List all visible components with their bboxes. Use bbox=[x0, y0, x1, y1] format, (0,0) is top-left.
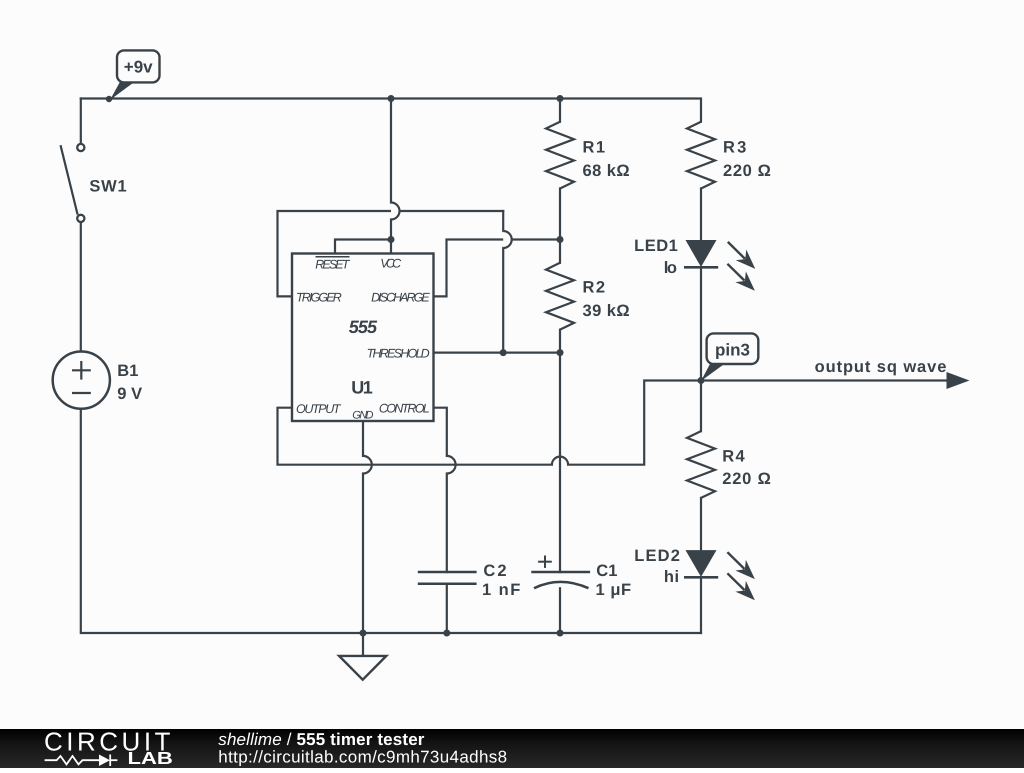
svg-text:220 Ω: 220 Ω bbox=[722, 470, 771, 488]
svg-text:39 kΩ: 39 kΩ bbox=[583, 302, 630, 320]
svg-text:555: 555 bbox=[349, 317, 378, 337]
svg-text:68 kΩ: 68 kΩ bbox=[583, 162, 630, 180]
svg-text:LED2: LED2 bbox=[634, 547, 680, 565]
svg-text:http://circuitlab.com/c9mh73u4: http://circuitlab.com/c9mh73u4adhs8 bbox=[218, 748, 507, 767]
svg-text:R4: R4 bbox=[722, 448, 745, 466]
svg-text:OUTPUT: OUTPUT bbox=[296, 402, 342, 416]
svg-text:output sq wave: output sq wave bbox=[815, 358, 947, 376]
svg-text:U1: U1 bbox=[351, 377, 373, 397]
svg-text:CONTROL: CONTROL bbox=[379, 402, 430, 416]
svg-text:+9v: +9v bbox=[124, 58, 153, 77]
svg-text:1 μF: 1 μF bbox=[596, 581, 632, 599]
svg-text:B1: B1 bbox=[117, 362, 138, 380]
svg-text:C2: C2 bbox=[483, 562, 506, 580]
svg-text:lo: lo bbox=[664, 259, 677, 277]
svg-text:pin3: pin3 bbox=[715, 341, 750, 360]
svg-text:R2: R2 bbox=[583, 279, 606, 297]
svg-text:shellime / 555 timer tester: shellime / 555 timer tester bbox=[218, 730, 425, 749]
svg-text:LAB: LAB bbox=[128, 748, 173, 768]
svg-text:LED1: LED1 bbox=[634, 237, 678, 255]
svg-text:R1: R1 bbox=[583, 139, 606, 157]
svg-text:9 V: 9 V bbox=[117, 385, 142, 403]
svg-text:GND: GND bbox=[352, 410, 373, 422]
svg-text:R3: R3 bbox=[723, 139, 746, 157]
svg-text:1 nF: 1 nF bbox=[482, 581, 520, 599]
svg-text:RESET: RESET bbox=[315, 258, 350, 272]
svg-text:C1: C1 bbox=[596, 562, 617, 580]
svg-text:SW1: SW1 bbox=[89, 178, 126, 196]
svg-text:THRESHOLD: THRESHOLD bbox=[367, 347, 430, 361]
svg-text:220 Ω: 220 Ω bbox=[723, 162, 771, 180]
svg-text:TRIGGER: TRIGGER bbox=[296, 290, 342, 304]
svg-text:VCC: VCC bbox=[380, 257, 402, 271]
svg-text:DISCHARGE: DISCHARGE bbox=[371, 290, 430, 304]
svg-text:hi: hi bbox=[664, 568, 679, 586]
